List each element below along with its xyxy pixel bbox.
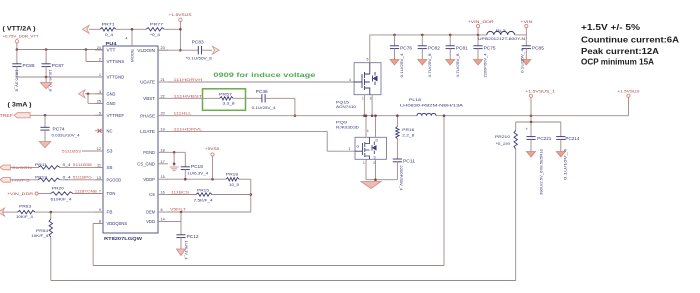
junction (16, 48, 19, 51)
svg-text:10K/F_4: 10K/F_4 (31, 233, 49, 238)
svg-text:VTT: VTT (107, 48, 116, 53)
port arrow top-left (83, 25, 90, 33)
svg-text:2: 2 (99, 58, 101, 62)
capacitor PC87 (45, 50, 47, 64)
svg-text:3: 3 (99, 90, 101, 94)
wire VLDOIN (158, 49, 198, 51)
svg-text:RJK03D3D: RJK03D3D (336, 125, 359, 130)
svg-text:7.5K/F_4: 7.5K/F_4 (194, 198, 214, 203)
wire (515, 34, 527, 36)
wire VDDQSNS sense (93, 222, 103, 224)
svg-text:PR71: PR71 (102, 22, 116, 27)
svg-text:VTTREF: VTTREF (107, 113, 125, 118)
wire output +1.5VSUS (436, 115, 629, 117)
svg-text:5111B58: 5111B58 (73, 162, 93, 167)
svg-text:( 3mA ): ( 3mA ) (8, 102, 32, 109)
pin PGND 18 (158, 151, 168, 153)
pin VTTSNS 2 (95, 61, 103, 63)
resistor PR210 (515, 122, 517, 130)
wire drain PQ15 (369, 35, 371, 63)
resistor PR18 (226, 178, 239, 181)
junction (87, 93, 90, 96)
svg-text:PL18: PL18 (409, 97, 422, 102)
svg-text:GND: GND (107, 91, 117, 96)
capacitor PC214 (560, 122, 562, 137)
wire PGND (168, 151, 185, 153)
svg-text:LGATE: LGATE (140, 129, 155, 134)
svg-text:PL3: PL3 (496, 28, 507, 33)
svg-text:PR77: PR77 (150, 22, 164, 27)
svg-text:0.1U/25V_4: 0.1U/25V_4 (399, 53, 404, 78)
wire (85, 93, 103, 95)
svg-text:3: 3 (370, 97, 372, 101)
svg-text:+1.5V +/- 5%: +1.5V +/- 5% (581, 23, 640, 32)
svg-text:+0.75V_DDR_VTT: +0.75V_DDR_VTT (3, 34, 40, 39)
svg-text:+1.5VSUS: +1.5VSUS (618, 88, 640, 93)
svg-text:10_5: 10_5 (229, 182, 240, 187)
wire (265, 97, 295, 99)
svg-text:PC36: PC36 (256, 89, 269, 94)
capacitor PC83 (197, 46, 199, 54)
svg-text:1: 1 (363, 161, 365, 165)
resistor PR54 (50, 212, 52, 219)
svg-text:4: 4 (125, 37, 127, 41)
mosfet glyph PQ9 (355, 137, 370, 159)
wire (87, 94, 89, 104)
svg-text:16: 16 (161, 191, 165, 195)
svg-text:OCP minimum 15A: OCP minimum 15A (581, 58, 654, 67)
svg-text:23: 23 (161, 46, 165, 50)
capacitor PC82 (421, 34, 424, 37)
svg-text:MODE: MODE (130, 49, 135, 62)
svg-text:13: 13 (97, 176, 101, 180)
svg-text:111BTONB: 111BTONB (75, 188, 97, 193)
svg-text:0909 for induce voltage: 0909 for induce voltage (213, 73, 316, 79)
wire output stub (516, 121, 561, 123)
wire CS net 111BCS (168, 194, 196, 196)
svg-text:20: 20 (161, 112, 165, 116)
svg-text:+VIN_DDR: +VIN_DDR (468, 19, 494, 24)
svg-text:NC: NC (107, 128, 114, 133)
capacitor PC76 (393, 34, 396, 37)
wire VTTGND (17, 76, 103, 78)
svg-text:VTTSNS: VTTSNS (107, 59, 125, 64)
pin PGOOD 13 (95, 179, 103, 181)
svg-text:VTTGND: VTTGND (107, 75, 125, 80)
svg-text:PR15: PR15 (197, 188, 210, 193)
wire (164, 28, 180, 30)
svg-text:+1.5VSUS: +1.5VSUS (169, 12, 192, 17)
junction (180, 211, 183, 214)
svg-text:0.1U/25V_4: 0.1U/25V_4 (252, 105, 277, 110)
svg-text:G: G (357, 145, 360, 149)
pin S3 12 (95, 150, 103, 152)
junction (184, 178, 187, 181)
resistor PR16 (396, 116, 398, 127)
pin VDDQSNS 8 (95, 222, 103, 224)
capacitor PC75 (477, 34, 480, 37)
wire (525, 28, 527, 35)
svg-text:FB: FB (107, 210, 113, 215)
junction (443, 114, 446, 117)
ground (527, 152, 536, 158)
pin PHASE 20 (158, 115, 168, 117)
svg-text:6: 6 (161, 208, 163, 212)
svg-text:PR16: PR16 (402, 127, 415, 132)
wire (179, 22, 181, 51)
svg-text:22: 22 (161, 94, 165, 98)
svg-text:24: 24 (97, 46, 101, 50)
svg-text:4.7U/25V_8: 4.7U/25V_8 (455, 54, 460, 78)
pin TON 7 (95, 193, 103, 195)
svg-text:PR18: PR18 (226, 171, 239, 176)
svg-text:PC214: PC214 (565, 136, 580, 141)
svg-text:TON: TON (107, 191, 116, 196)
junction (173, 163, 176, 166)
svg-text:10K/F_4: 10K/F_4 (16, 214, 34, 219)
svg-text:Peak current:12A: Peak current:12A (581, 47, 659, 56)
junction (173, 151, 176, 154)
junction (179, 28, 182, 31)
svg-text:PC81: PC81 (456, 45, 469, 50)
pin DEM 6 (158, 211, 168, 213)
svg-text:111HDRVH: 111HDRVH (173, 77, 202, 82)
ground (361, 182, 381, 189)
wire source PQ9 (365, 159, 367, 180)
wire PHASE net 111HLL (168, 115, 417, 117)
wire VTT rail (17, 49, 103, 51)
svg-text:PC82: PC82 (428, 45, 441, 50)
svg-text:PR11: PR11 (35, 162, 48, 167)
node +0.75V_DDR_VTT (15, 40, 18, 43)
resistor PR57 (220, 97, 234, 100)
svg-text:PR210: PR210 (495, 134, 511, 139)
svg-text:9: 9 (99, 208, 101, 212)
wire FB sense bottom (51, 280, 516, 282)
wire (233, 97, 262, 99)
svg-text:111HVBST: 111HVBST (173, 93, 203, 98)
wire MODE pin 4 (131, 29, 133, 46)
ground earth (170, 166, 179, 168)
svg-text:Countinue current:6A: Countinue current:6A (581, 35, 679, 44)
svg-text:111BCS: 111BCS (171, 189, 189, 194)
pin S5 11 (95, 166, 103, 168)
wire (477, 28, 479, 35)
svg-text:RT8207LGQW: RT8207LGQW (104, 236, 143, 241)
junction (294, 114, 297, 117)
inductor PL3 (487, 31, 515, 34)
capacitor PC11 (396, 139, 398, 159)
svg-text:2200P/50V_4: 2200P/50V_4 (483, 53, 488, 78)
pin GND 3 (95, 93, 103, 95)
mosfet glyph PQ15 (354, 63, 370, 95)
pin VBST 22 (158, 97, 168, 99)
svg-text:ACN7410: ACN7410 (336, 104, 357, 109)
svg-text:PC11: PC11 (403, 158, 416, 163)
port FB arrow (0, 208, 5, 216)
inductor PL18 (417, 113, 436, 115)
wire net 111BTONB (73, 193, 103, 195)
port GND arrow (79, 90, 86, 98)
pin GND 25 (95, 102, 103, 104)
svg-text:UGATE: UGATE (140, 80, 155, 85)
capacitor PC221 (530, 122, 532, 137)
svg-text:11: 11 (97, 163, 101, 167)
wire (89, 28, 100, 30)
wire (366, 179, 397, 181)
pin VTTGND 1 (95, 76, 103, 78)
wire VDD (168, 221, 181, 223)
wire net 5111B58 (60, 166, 103, 168)
svg-text:CS_GND: CS_GND (137, 161, 155, 166)
svg-text:10U/6.3V_8: 10U/6.3V_8 (48, 70, 53, 93)
svg-text:2200P/50V_4: 2200P/50V_4 (399, 165, 404, 191)
svg-text:PR63: PR63 (19, 204, 32, 209)
svg-text:GND: GND (107, 101, 117, 106)
svg-text:VDDQSNS: VDDQSNS (107, 221, 128, 226)
transistor Q PQ15 ACN7410 (354, 63, 381, 95)
wire (530, 97, 532, 122)
svg-text:PR20: PR20 (52, 185, 65, 190)
resistor PR20 (51, 192, 74, 195)
op-amp U1 controller PU4 RT8207LGQW body (103, 46, 158, 233)
svg-text:7: 7 (99, 190, 101, 194)
svg-text:PC75: PC75 (484, 45, 497, 50)
svg-text:+VIN_DDR: +VIN_DDR (7, 191, 33, 196)
svg-text:PC221: PC221 (537, 136, 552, 141)
svg-text:PC87: PC87 (52, 63, 65, 68)
svg-text:S5: S5 (107, 165, 113, 170)
svg-text:0.033U/10V_4: 0.033U/10V_4 (52, 132, 81, 137)
wire (3, 211, 18, 213)
pin CS 16 (158, 194, 168, 196)
svg-text:14: 14 (161, 218, 165, 222)
body diode PQ15 (373, 76, 378, 82)
pin VDD 14 (158, 221, 168, 223)
svg-text:1: 1 (349, 147, 351, 151)
junction (44, 114, 47, 117)
svg-text:0.1U/10V_4: 0.1U/10V_4 (564, 149, 568, 180)
resistor PR15 (196, 193, 212, 196)
svg-text:S3: S3 (107, 149, 113, 154)
svg-text:19: 19 (161, 127, 165, 131)
svg-text:PC74: PC74 (53, 127, 66, 132)
svg-text:5: 5 (367, 58, 369, 62)
svg-text:PC76: PC76 (400, 45, 413, 50)
svg-text:*0.1U/50V_8: *0.1U/50V_8 (186, 55, 213, 60)
wire LGATE net 111HDRVL (168, 130, 327, 132)
svg-text:4.7U/25V_8: 4.7U/25V_8 (427, 54, 432, 78)
svg-text:4: 4 (349, 78, 351, 82)
resistor PR63 (18, 210, 36, 213)
wire VBST net 111HVBST (168, 97, 220, 99)
svg-text:111HLL: 111HLL (173, 111, 192, 116)
wire (16, 43, 18, 50)
wire (515, 149, 517, 281)
wire source PQ15 (363, 95, 365, 116)
wire DEM net V5FILT (168, 211, 251, 213)
svg-text:111HDRVL: 111HDRVL (173, 126, 203, 131)
wire +VIN rail (370, 34, 487, 36)
svg-text:PC85: PC85 (532, 45, 545, 50)
pin CS_GND 17 (158, 163, 168, 165)
ground (45, 77, 47, 83)
port arrow right (213, 46, 220, 54)
capacitor PC74 (44, 115, 46, 127)
wire (10, 166, 38, 168)
pin VTT 24 (95, 49, 103, 51)
svg-text:PR57: PR57 (219, 91, 233, 96)
svg-text:3.3_8: 3.3_8 (223, 101, 236, 106)
svg-text:PC83: PC83 (192, 40, 205, 45)
svg-text:4: 4 (367, 129, 369, 133)
svg-text:PU4: PU4 (106, 41, 118, 46)
wire drain PQ9 (365, 116, 367, 138)
capacitor PC86 (16, 50, 18, 64)
pin NC (95, 130, 103, 132)
capacitor PC18 (181, 166, 190, 168)
resistor PR71 (100, 28, 116, 31)
svg-text:619K/F_4: 619K/F_4 (51, 196, 73, 201)
wire (173, 152, 175, 166)
svg-text:PC86: PC86 (23, 63, 36, 68)
wire FB (35, 211, 103, 213)
svg-text:PC18: PC18 (191, 164, 204, 169)
svg-text:VTTREF: VTTREF (0, 113, 14, 118)
wire (10, 179, 38, 181)
wire (116, 28, 146, 30)
resistor PR11 (38, 166, 60, 169)
svg-text:VDDP: VDDP (143, 177, 155, 182)
capacitor PC36 (261, 94, 263, 102)
pin UGATE 21 (158, 81, 168, 83)
svg-text:18: 18 (161, 148, 165, 152)
body diode PQ9 (372, 145, 377, 151)
svg-text:17: 17 (161, 160, 165, 164)
svg-text:PR19: PR19 (35, 175, 48, 180)
pin VDDP 15 (158, 178, 168, 180)
svg-text:10U/6.3V_8: 10U/6.3V_8 (15, 70, 20, 93)
svg-text:0_4: 0_4 (105, 32, 114, 37)
junction (45, 76, 48, 79)
svg-text:VDD: VDD (146, 219, 156, 224)
svg-text:UPB201212T-800Y-N: UPB201212T-800Y-N (478, 36, 525, 41)
pin FB 9 (95, 211, 103, 213)
wire VTTSNS branch (85, 50, 87, 62)
wire UGATE net 111HDRVH (168, 81, 354, 83)
ground (556, 152, 565, 158)
pin VLDOIN 23 (158, 49, 168, 51)
svg-text:+VIN: +VIN (520, 19, 532, 24)
svg-text:1U/6.3V_4: 1U/6.3V_4 (187, 171, 209, 176)
svg-text:15: 15 (161, 175, 165, 179)
wire (184, 152, 186, 167)
port HWPG (0, 177, 10, 182)
svg-text:PGND: PGND (143, 150, 155, 155)
svg-text:25: 25 (97, 99, 101, 103)
svg-text:+5VS8: +5VS8 (205, 146, 220, 151)
transistor Q PQ9 RJK03D3D (355, 137, 387, 159)
capacitor PC81 (449, 34, 452, 37)
resistor PR19 (38, 178, 60, 181)
resistor PR77 (146, 28, 164, 31)
wire net 5111B53 (82, 150, 103, 152)
junction (250, 193, 253, 196)
wire (38, 193, 50, 195)
wire (202, 49, 213, 51)
wire (628, 97, 630, 115)
junction (530, 121, 533, 124)
svg-text:3: 3 (373, 161, 375, 165)
svg-text:VBST: VBST (143, 96, 155, 101)
wire VTTREF (30, 114, 103, 116)
svg-text:V5FILT: V5FILT (170, 207, 187, 212)
svg-text:5111B53: 5111B53 (62, 149, 82, 154)
highlight box green (203, 89, 246, 111)
svg-text:1: 1 (362, 97, 364, 101)
svg-text:VLDOIN: VLDOIN (137, 48, 155, 53)
junction (50, 211, 53, 214)
wire (212, 156, 214, 179)
junction (365, 114, 368, 117)
capacitor PC12 (180, 222, 182, 235)
svg-text:PHASE: PHASE (140, 113, 155, 118)
svg-text:0_4: 0_4 (63, 175, 72, 180)
wire (239, 178, 251, 180)
svg-text:( VTT/2A ): ( VTT/2A ) (3, 26, 36, 33)
junction (363, 114, 366, 117)
svg-text:0.1U/25V_4: 0.1U/25V_4 (520, 48, 525, 73)
ground (177, 249, 186, 256)
no-connect X (98, 129, 102, 133)
junction (131, 28, 134, 31)
junction (374, 178, 377, 181)
svg-text:*0_4: *0_4 (150, 32, 161, 37)
svg-text:8: 8 (99, 219, 101, 223)
svg-text:21: 21 (161, 78, 165, 82)
svg-text:PC12: PC12 (187, 234, 200, 239)
pin LGATE 19 (158, 130, 168, 132)
svg-text:0_4: 0_4 (63, 162, 72, 167)
wire VDDP (168, 178, 226, 180)
svg-text:PGOOD: PGOOD (107, 177, 122, 182)
svg-text:390U/2.5V_6X8.5E5R10: 390U/2.5V_6X8.5E5R10 (539, 149, 543, 195)
ground (39, 142, 51, 148)
svg-text:5: 5 (99, 111, 101, 115)
svg-text:2.2_8: 2.2_8 (402, 132, 415, 137)
svg-text:*0_2/9: *0_2/9 (496, 141, 511, 146)
svg-text:CS: CS (149, 192, 155, 197)
svg-text:5111BPG: 5111BPG (73, 175, 92, 180)
svg-text:DEM: DEM (146, 210, 155, 215)
pin VTTREF 5 (95, 114, 103, 116)
wire (212, 194, 251, 196)
svg-text:LH0830-R82M-NBH/13A: LH0830-R82M-NBH/13A (400, 103, 464, 108)
junction (396, 114, 399, 117)
svg-text:+1.5VSUS_1: +1.5VSUS_1 (525, 88, 556, 93)
svg-text:1: 1 (99, 73, 101, 77)
capacitor PC85 (525, 35, 527, 46)
svg-text:12: 12 (97, 147, 101, 151)
port SUSON (0, 165, 10, 170)
wire net 5111BPG (60, 179, 103, 181)
